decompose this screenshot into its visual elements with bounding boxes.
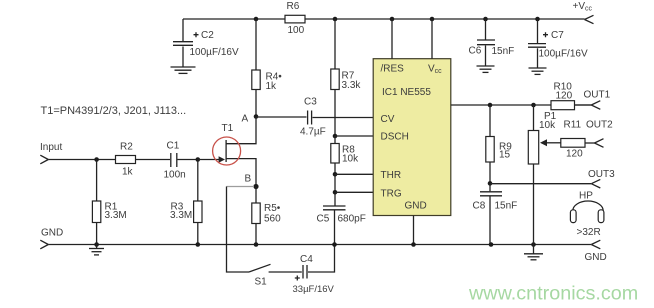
svg-text:R11: R11 — [564, 120, 582, 131]
svg-text:15: 15 — [499, 150, 511, 161]
svg-text:R2: R2 — [120, 142, 133, 153]
svg-text:10k: 10k — [342, 154, 359, 165]
svg-text:C6: C6 — [469, 46, 482, 57]
svg-text:OUT2: OUT2 — [586, 120, 613, 131]
ground under C7 — [529, 68, 547, 74]
node A — [254, 114, 259, 119]
svg-text:15nF: 15nF — [492, 46, 515, 57]
junction top rail / R4 — [254, 17, 259, 22]
junction THR — [333, 172, 338, 177]
svg-text:S1: S1 — [255, 277, 268, 288]
svg-text:/RES: /RES — [381, 64, 405, 75]
svg-text:15nF: 15nF — [495, 201, 518, 212]
gate wire — [198, 159, 220, 161]
junction out / R9 — [488, 103, 493, 108]
junction TRG — [333, 190, 338, 195]
svg-text:C1: C1 — [167, 141, 180, 152]
svg-text:B: B — [245, 174, 252, 185]
capacitor C7 — [528, 19, 588, 68]
net +Vcc connector — [573, 1, 594, 24]
capacitor C3 — [300, 97, 326, 138]
svg-text:100n: 100n — [164, 170, 186, 181]
svg-text:C2: C2 — [201, 30, 214, 41]
junction input / R1 — [94, 157, 99, 162]
net GND connector left — [40, 228, 63, 249]
potentiometer P1 — [528, 105, 561, 245]
wire node B to switch (gray) — [227, 186, 255, 188]
channel bar — [225, 140, 227, 162]
ground symbol left — [89, 245, 104, 255]
resistor R9 — [486, 105, 512, 183]
gate arrow — [219, 156, 225, 162]
net OUT1 connector — [584, 89, 611, 109]
wire C1 to gate node — [178, 159, 198, 161]
svg-text:R5•: R5• — [264, 203, 281, 214]
wire OUT3 — [490, 183, 591, 185]
svg-text:3.3k: 3.3k — [342, 80, 362, 91]
svg-text:OUT3: OUT3 — [588, 169, 615, 180]
junction top rail / R7 — [333, 17, 338, 22]
wire DSCH pin — [335, 135, 373, 137]
svg-text:100µF/16V: 100µF/16V — [539, 49, 588, 60]
svg-text:1k: 1k — [122, 167, 134, 178]
svg-text:C8: C8 — [473, 201, 486, 212]
junction rail / P1 — [531, 242, 536, 247]
junction out / P1 — [531, 103, 536, 108]
junction top rail / RES pin — [390, 17, 395, 22]
resistor R8 — [331, 136, 359, 206]
svg-text:www.cntronics.com: www.cntronics.com — [468, 283, 638, 305]
junction rail / R5 — [254, 242, 259, 247]
resistor R10 — [551, 82, 591, 110]
wire R2 to C1 — [136, 159, 171, 161]
svg-text:100µF/16V: 100µF/16V — [190, 47, 239, 58]
wire Vcc pin — [431, 19, 433, 59]
wire node A to C3 — [256, 116, 307, 118]
resistor R6 — [285, 1, 305, 36]
svg-text:THR: THR — [381, 170, 402, 181]
svg-text:HP: HP — [579, 191, 593, 202]
svg-text:C4: C4 — [300, 254, 313, 265]
capacitor C2 — [173, 19, 239, 67]
svg-text:C5: C5 — [317, 214, 330, 225]
junction top rail / C7 — [535, 17, 540, 22]
capacitor C4 — [293, 254, 335, 295]
svg-text:R6: R6 — [287, 1, 300, 12]
svg-text:T1: T1 — [222, 123, 234, 134]
ground symbol right — [524, 245, 543, 260]
node B — [253, 184, 258, 189]
capacitor C1 — [164, 141, 186, 181]
junction rail / C8 — [489, 242, 494, 247]
source lead — [226, 159, 256, 187]
wire bottom ground rail — [48, 244, 591, 246]
wire THR pin — [335, 173, 373, 175]
svg-text:A: A — [242, 114, 249, 125]
ground under C2 — [171, 67, 196, 73]
svg-text:C7: C7 — [551, 30, 564, 41]
net GND connector right — [585, 240, 607, 263]
svg-text:1k: 1k — [266, 81, 278, 92]
headphone HP symbol — [570, 191, 604, 239]
wire GND pin — [413, 216, 415, 245]
svg-text:C3: C3 — [304, 97, 317, 108]
svg-text:GND: GND — [41, 228, 63, 239]
svg-text:OUT1: OUT1 — [584, 89, 611, 100]
junction gate / R3 — [196, 157, 201, 162]
op-amp U1 : IC1 NE555 timer — [373, 59, 451, 216]
svg-text:120: 120 — [556, 91, 573, 102]
resistor R11 — [561, 120, 595, 160]
capacitor C6 — [469, 19, 515, 66]
svg-text:4.7µF: 4.7µF — [300, 127, 326, 138]
junction top rail / C6 — [483, 17, 488, 22]
red circle — [213, 137, 241, 165]
resistor R3 — [170, 160, 202, 245]
transistor Q1 : T1 JFET — [198, 117, 256, 187]
wire C3 to CV pin — [313, 117, 374, 119]
svg-text:3.3M: 3.3M — [105, 210, 127, 221]
svg-text:10k: 10k — [539, 120, 556, 131]
drain lead — [226, 117, 256, 144]
net Input connector — [40, 142, 62, 164]
wire input to R2 — [48, 159, 115, 161]
svg-text:GND: GND — [405, 201, 427, 212]
svg-text:680pF: 680pF — [338, 214, 366, 225]
svg-text:3.3M: 3.3M — [170, 210, 192, 221]
wire top +V rail — [183, 18, 585, 20]
junction rail / C5 C4 — [332, 242, 337, 247]
svg-text:Input: Input — [40, 142, 62, 153]
resistor R7 — [331, 19, 362, 136]
junction R9 C8 OUT3 — [488, 181, 493, 186]
capacitor C8 — [473, 183, 518, 244]
junction rail / IC GND — [411, 242, 416, 247]
svg-text:560: 560 — [264, 214, 281, 225]
resistor R2 — [116, 142, 136, 178]
net OUT3 connector — [588, 169, 615, 188]
svg-text:>32R: >32R — [577, 227, 601, 238]
net OUT2 connector — [586, 120, 613, 148]
svg-text:120: 120 — [566, 149, 583, 160]
ground under C6 — [477, 66, 495, 72]
wire C4 to ground rail — [308, 245, 335, 273]
junction DSCH — [333, 134, 338, 139]
switch S1 — [227, 187, 302, 288]
svg-text:T1=PN4391/2/3, J201, J113...: T1=PN4391/2/3, J201, J113... — [41, 105, 187, 117]
wire TRG pin — [335, 191, 373, 193]
resistor R5 — [252, 187, 281, 245]
wire /RES pin — [391, 19, 393, 59]
junction rail / R3 — [196, 242, 201, 247]
svg-text:IC1 NE555: IC1 NE555 — [382, 87, 431, 98]
svg-text:100: 100 — [288, 25, 305, 36]
svg-text:CV: CV — [381, 114, 395, 125]
svg-text:33µF/16V: 33µF/16V — [293, 284, 335, 295]
svg-text:TRG: TRG — [381, 189, 402, 200]
junction rail / R1 — [94, 242, 99, 247]
capacitor C5 — [317, 206, 366, 245]
svg-text:DSCH: DSCH — [381, 132, 409, 143]
resistor R1 — [92, 160, 126, 245]
junction top rail / Vcc pin — [430, 17, 435, 22]
resistor R4 — [252, 19, 282, 117]
wire OUT pin 3 — [451, 104, 592, 106]
svg-text:GND: GND — [585, 252, 607, 263]
